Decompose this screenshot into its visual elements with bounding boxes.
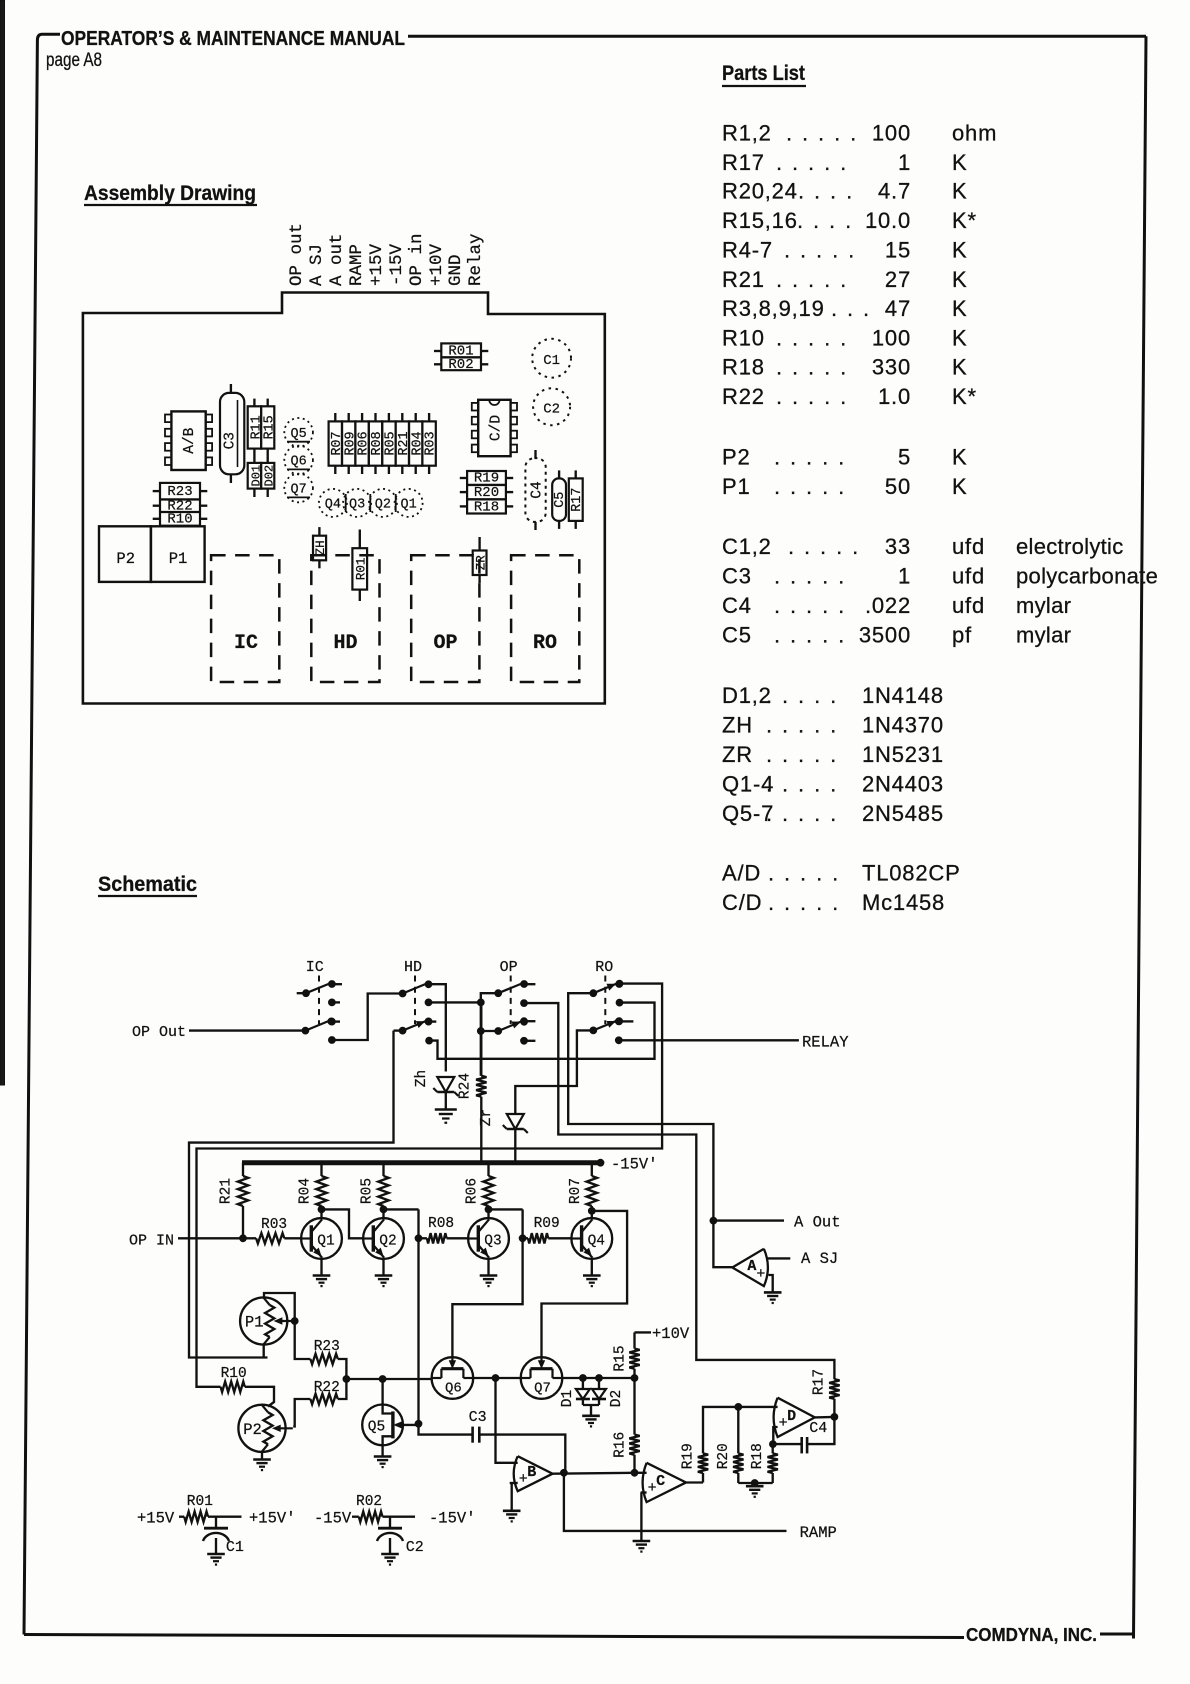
svg-text:15: 15 [885, 238, 911, 263]
svg-text:Assembly Drawing: Assembly Drawing [84, 181, 256, 205]
svg-text:-15V': -15V' [611, 1156, 658, 1174]
svg-text:Q4: Q4 [325, 498, 341, 513]
svg-text:R01: R01 [187, 1494, 213, 1510]
svg-text:pf: pf [952, 623, 972, 648]
svg-text:R18: R18 [722, 355, 765, 380]
svg-text:R19: R19 [681, 1443, 697, 1469]
svg-text:R21: R21 [722, 267, 765, 292]
svg-text:HD: HD [404, 959, 422, 976]
svg-text:GND: GND [446, 254, 466, 286]
svg-text:R03: R03 [261, 1217, 287, 1233]
svg-text:COMDYNA, INC.: COMDYNA, INC. [966, 1624, 1097, 1645]
svg-text:ufd: ufd [952, 534, 985, 559]
svg-text:+10V: +10V [427, 243, 447, 286]
svg-text:C5: C5 [553, 492, 568, 508]
svg-text:TL082CP: TL082CP [862, 861, 961, 886]
svg-text:Q3: Q3 [484, 1234, 501, 1250]
svg-text:1N5231: 1N5231 [862, 742, 944, 767]
svg-text:R20: R20 [716, 1443, 732, 1469]
svg-text:C4: C4 [809, 1420, 827, 1437]
svg-text:mylar: mylar [1016, 593, 1071, 618]
svg-text:-15V': -15V' [429, 1510, 476, 1528]
svg-text:R17: R17 [812, 1369, 828, 1395]
svg-text:. . . . .: . . . . . [774, 445, 846, 470]
svg-text:. . . . .: . . . . . [786, 121, 858, 146]
svg-text:1N4370: 1N4370 [862, 713, 944, 738]
svg-text:R02: R02 [356, 1494, 382, 1510]
svg-text:A: A [747, 1258, 756, 1275]
svg-text:R08: R08 [428, 1216, 454, 1232]
svg-text:+15V': +15V' [249, 1510, 296, 1528]
svg-text:Q2: Q2 [375, 498, 391, 513]
svg-text:Q1: Q1 [400, 498, 416, 513]
svg-text:R18: R18 [750, 1443, 766, 1469]
svg-text:ohm: ohm [952, 121, 997, 146]
svg-text:D1,2: D1,2 [722, 683, 772, 708]
svg-text:K: K [952, 445, 967, 470]
svg-text:-15V: -15V [387, 243, 407, 286]
svg-text:27: 27 [885, 267, 911, 292]
svg-text:OP in: OP in [407, 233, 427, 286]
svg-text:Q5: Q5 [368, 1420, 385, 1436]
svg-text:P2: P2 [243, 1421, 262, 1439]
svg-text:R06: R06 [465, 1178, 481, 1204]
svg-text:electrolytic: electrolytic [1016, 534, 1124, 559]
svg-text:100: 100 [872, 121, 911, 146]
svg-text:. . . . .: . . . . . [766, 683, 838, 708]
svg-text:Q5: Q5 [290, 427, 306, 442]
svg-text:. . . . .: . . . . . [788, 534, 860, 559]
svg-text:R10: R10 [722, 326, 765, 351]
svg-text:OP: OP [500, 959, 518, 976]
svg-text:polycarbonate: polycarbonate [1016, 564, 1158, 589]
svg-text:OP: OP [433, 632, 457, 655]
svg-text:R3,8,9,19: R3,8,9,19 [722, 296, 825, 321]
svg-text:K: K [952, 150, 967, 175]
svg-text:1N4148: 1N4148 [862, 683, 944, 708]
svg-text:K*: K* [952, 208, 977, 233]
svg-text:ZH: ZH [314, 540, 328, 555]
svg-text:R15,16: R15,16 [722, 208, 798, 233]
svg-text:Q6: Q6 [445, 1381, 462, 1397]
svg-text:ZR: ZR [722, 742, 753, 767]
svg-text:C1: C1 [543, 353, 560, 369]
svg-text:C4: C4 [722, 593, 752, 618]
svg-text:Q7: Q7 [290, 483, 306, 498]
svg-text:RELAY: RELAY [802, 1034, 849, 1052]
svg-text:+15V: +15V [137, 1510, 175, 1528]
svg-text:R18: R18 [474, 499, 499, 515]
svg-text:. . . . .: . . . . . [776, 355, 848, 380]
svg-text:OP IN: OP IN [129, 1233, 174, 1250]
svg-text:Q7: Q7 [534, 1381, 551, 1397]
svg-text:K: K [952, 179, 967, 204]
svg-text:50: 50 [885, 474, 911, 499]
svg-text:C4: C4 [530, 481, 546, 498]
svg-text:Q6: Q6 [290, 455, 306, 470]
svg-text:OPERATOR’S & MAINTENANCE MA: OPERATOR’S & MAINTENANCE MANUAL [61, 28, 405, 50]
svg-text:R15: R15 [613, 1345, 629, 1371]
svg-text:R04: R04 [298, 1178, 314, 1204]
svg-text:A/D: A/D [722, 861, 761, 886]
svg-text:HD: HD [333, 632, 357, 655]
svg-text:ZH: ZH [722, 713, 753, 738]
svg-text:B: B [527, 1464, 536, 1481]
svg-text:C1: C1 [226, 1539, 244, 1556]
svg-text:+: + [779, 1415, 788, 1432]
svg-text:1.0: 1.0 [878, 384, 911, 409]
svg-text:-15V: -15V [314, 1510, 352, 1528]
svg-text:ZR: ZR [474, 555, 488, 571]
svg-text:Q1: Q1 [317, 1234, 334, 1250]
svg-text:. . . . .: . . . . . [766, 801, 838, 826]
svg-text:. . . . .: . . . . . [766, 772, 838, 797]
svg-text:D1: D1 [560, 1390, 576, 1407]
svg-text:. . . . .: . . . . . [776, 267, 848, 292]
svg-text:1: 1 [898, 150, 911, 175]
svg-text:D: D [787, 1408, 796, 1425]
svg-text:P1: P1 [245, 1314, 264, 1332]
svg-text:R10: R10 [167, 512, 192, 528]
svg-text:100: 100 [872, 326, 911, 351]
svg-text:+: + [756, 1266, 765, 1283]
svg-text:R22: R22 [722, 384, 765, 409]
svg-text:R10: R10 [221, 1366, 247, 1382]
svg-text:. . . . .: . . . . . [774, 564, 846, 589]
svg-text:D02: D02 [263, 465, 277, 487]
svg-text:4.7: 4.7 [878, 179, 911, 204]
svg-text:. . . . .: . . . . . [774, 474, 846, 499]
svg-text:. . . . .: . . . . . [776, 326, 848, 351]
svg-text:C2: C2 [406, 1539, 424, 1556]
svg-text:Schematic: Schematic [98, 872, 197, 896]
svg-text:R15: R15 [263, 415, 278, 439]
svg-text:K: K [952, 474, 967, 499]
svg-text:ufd: ufd [952, 593, 985, 618]
svg-text:. . . . .: . . . . . [784, 238, 856, 263]
svg-text:OP out: OP out [287, 223, 307, 286]
svg-text:R22: R22 [314, 1380, 340, 1396]
svg-text:Relay: Relay [466, 233, 486, 286]
svg-text:IC: IC [234, 632, 258, 655]
svg-text:R03: R03 [424, 431, 439, 455]
svg-text:A Out: A Out [794, 1214, 841, 1232]
svg-text:RO: RO [533, 632, 557, 655]
svg-text:P1: P1 [722, 474, 751, 499]
svg-text:R17: R17 [570, 488, 585, 512]
svg-text:Q3: Q3 [349, 498, 365, 513]
svg-text:C3: C3 [223, 432, 239, 449]
svg-text:. . . .: . . . . [798, 179, 854, 204]
svg-text:. . . . .: . . . . . [766, 742, 838, 767]
svg-text:R16: R16 [613, 1432, 629, 1458]
svg-text:R02: R02 [448, 357, 473, 373]
svg-text:A SJ: A SJ [307, 244, 327, 286]
svg-text:A SJ: A SJ [801, 1250, 838, 1268]
svg-text:ufd: ufd [952, 564, 985, 589]
svg-text:3500: 3500 [859, 623, 911, 648]
svg-text:R1,2: R1,2 [722, 121, 772, 146]
svg-text:1: 1 [898, 564, 911, 589]
svg-text:. . . . .: . . . . . [766, 713, 838, 738]
svg-text:. . . . .: . . . . . [776, 384, 848, 409]
svg-text:K: K [952, 267, 967, 292]
svg-text:33: 33 [885, 534, 911, 559]
svg-text:+10V: +10V [652, 1325, 690, 1343]
svg-text:. . . . .: . . . . . [774, 623, 846, 648]
svg-text:5: 5 [898, 445, 911, 470]
svg-text:330: 330 [872, 355, 911, 380]
svg-text:R24: R24 [458, 1073, 474, 1099]
svg-text:R4-7: R4-7 [722, 238, 773, 263]
svg-text:R20,24: R20,24 [722, 179, 798, 204]
svg-text:. . . .: . . . . [797, 208, 853, 233]
svg-text:K: K [952, 238, 967, 263]
svg-text:C2: C2 [543, 402, 560, 418]
svg-text:47: 47 [885, 296, 911, 321]
svg-text:R05: R05 [360, 1178, 376, 1204]
svg-text:OP Out: OP Out [132, 1024, 186, 1041]
svg-text:Zr: Zr [479, 1109, 495, 1126]
svg-text:. . . . .: . . . . . [776, 150, 848, 175]
svg-text:P1: P1 [169, 550, 188, 568]
svg-text:page A8: page A8 [46, 50, 102, 71]
svg-text:A out: A out [327, 233, 347, 286]
svg-text:K: K [952, 326, 967, 351]
svg-text:2N4403: 2N4403 [862, 772, 944, 797]
svg-text:Mc1458: Mc1458 [862, 890, 945, 915]
svg-text:10.0: 10.0 [865, 208, 911, 233]
svg-text:+: + [519, 1471, 528, 1488]
svg-text:Parts List: Parts List [722, 61, 805, 85]
svg-text:.022: .022 [865, 593, 911, 618]
svg-text:C5: C5 [722, 623, 752, 648]
svg-text:D2: D2 [609, 1390, 625, 1407]
svg-text:. . . . .: . . . . . [768, 861, 840, 886]
svg-text:Q2: Q2 [379, 1234, 396, 1250]
svg-text:RO: RO [595, 959, 613, 976]
svg-text:. . . . .: . . . . . [774, 593, 846, 618]
svg-text:K*: K* [952, 384, 977, 409]
svg-text:R07: R07 [568, 1178, 584, 1204]
svg-text:C3: C3 [722, 564, 752, 589]
svg-text:mylar: mylar [1016, 623, 1071, 648]
svg-text:P2: P2 [722, 445, 751, 470]
svg-text:A/B: A/B [182, 427, 198, 453]
svg-text:. . . . .: . . . . . [768, 890, 840, 915]
svg-text:2N5485: 2N5485 [862, 801, 944, 826]
svg-text:. . .: . . . [831, 296, 871, 321]
svg-text:C: C [656, 1473, 665, 1490]
svg-text:R21: R21 [219, 1178, 235, 1204]
svg-text:+: + [648, 1480, 657, 1497]
svg-text:R09: R09 [534, 1216, 560, 1232]
svg-text:P2: P2 [116, 550, 135, 568]
svg-text:K: K [952, 296, 967, 321]
svg-text:C/D: C/D [722, 890, 762, 915]
svg-text:R23: R23 [314, 1339, 340, 1355]
svg-text:Zh: Zh [414, 1070, 430, 1087]
svg-text:RAMP: RAMP [347, 244, 367, 286]
svg-text:C1,2: C1,2 [722, 534, 772, 559]
svg-text:D01: D01 [250, 465, 264, 487]
svg-text:IC: IC [306, 959, 324, 976]
svg-text:+15V: +15V [367, 243, 387, 286]
svg-text:RAMP: RAMP [800, 1524, 837, 1542]
svg-text:R17: R17 [722, 150, 765, 175]
svg-text:R01: R01 [355, 558, 369, 581]
svg-text:Q4: Q4 [588, 1234, 605, 1250]
svg-text:C/D: C/D [489, 415, 505, 441]
svg-text:R23: R23 [167, 484, 192, 500]
svg-text:C3: C3 [469, 1409, 487, 1426]
svg-text:K: K [952, 355, 967, 380]
